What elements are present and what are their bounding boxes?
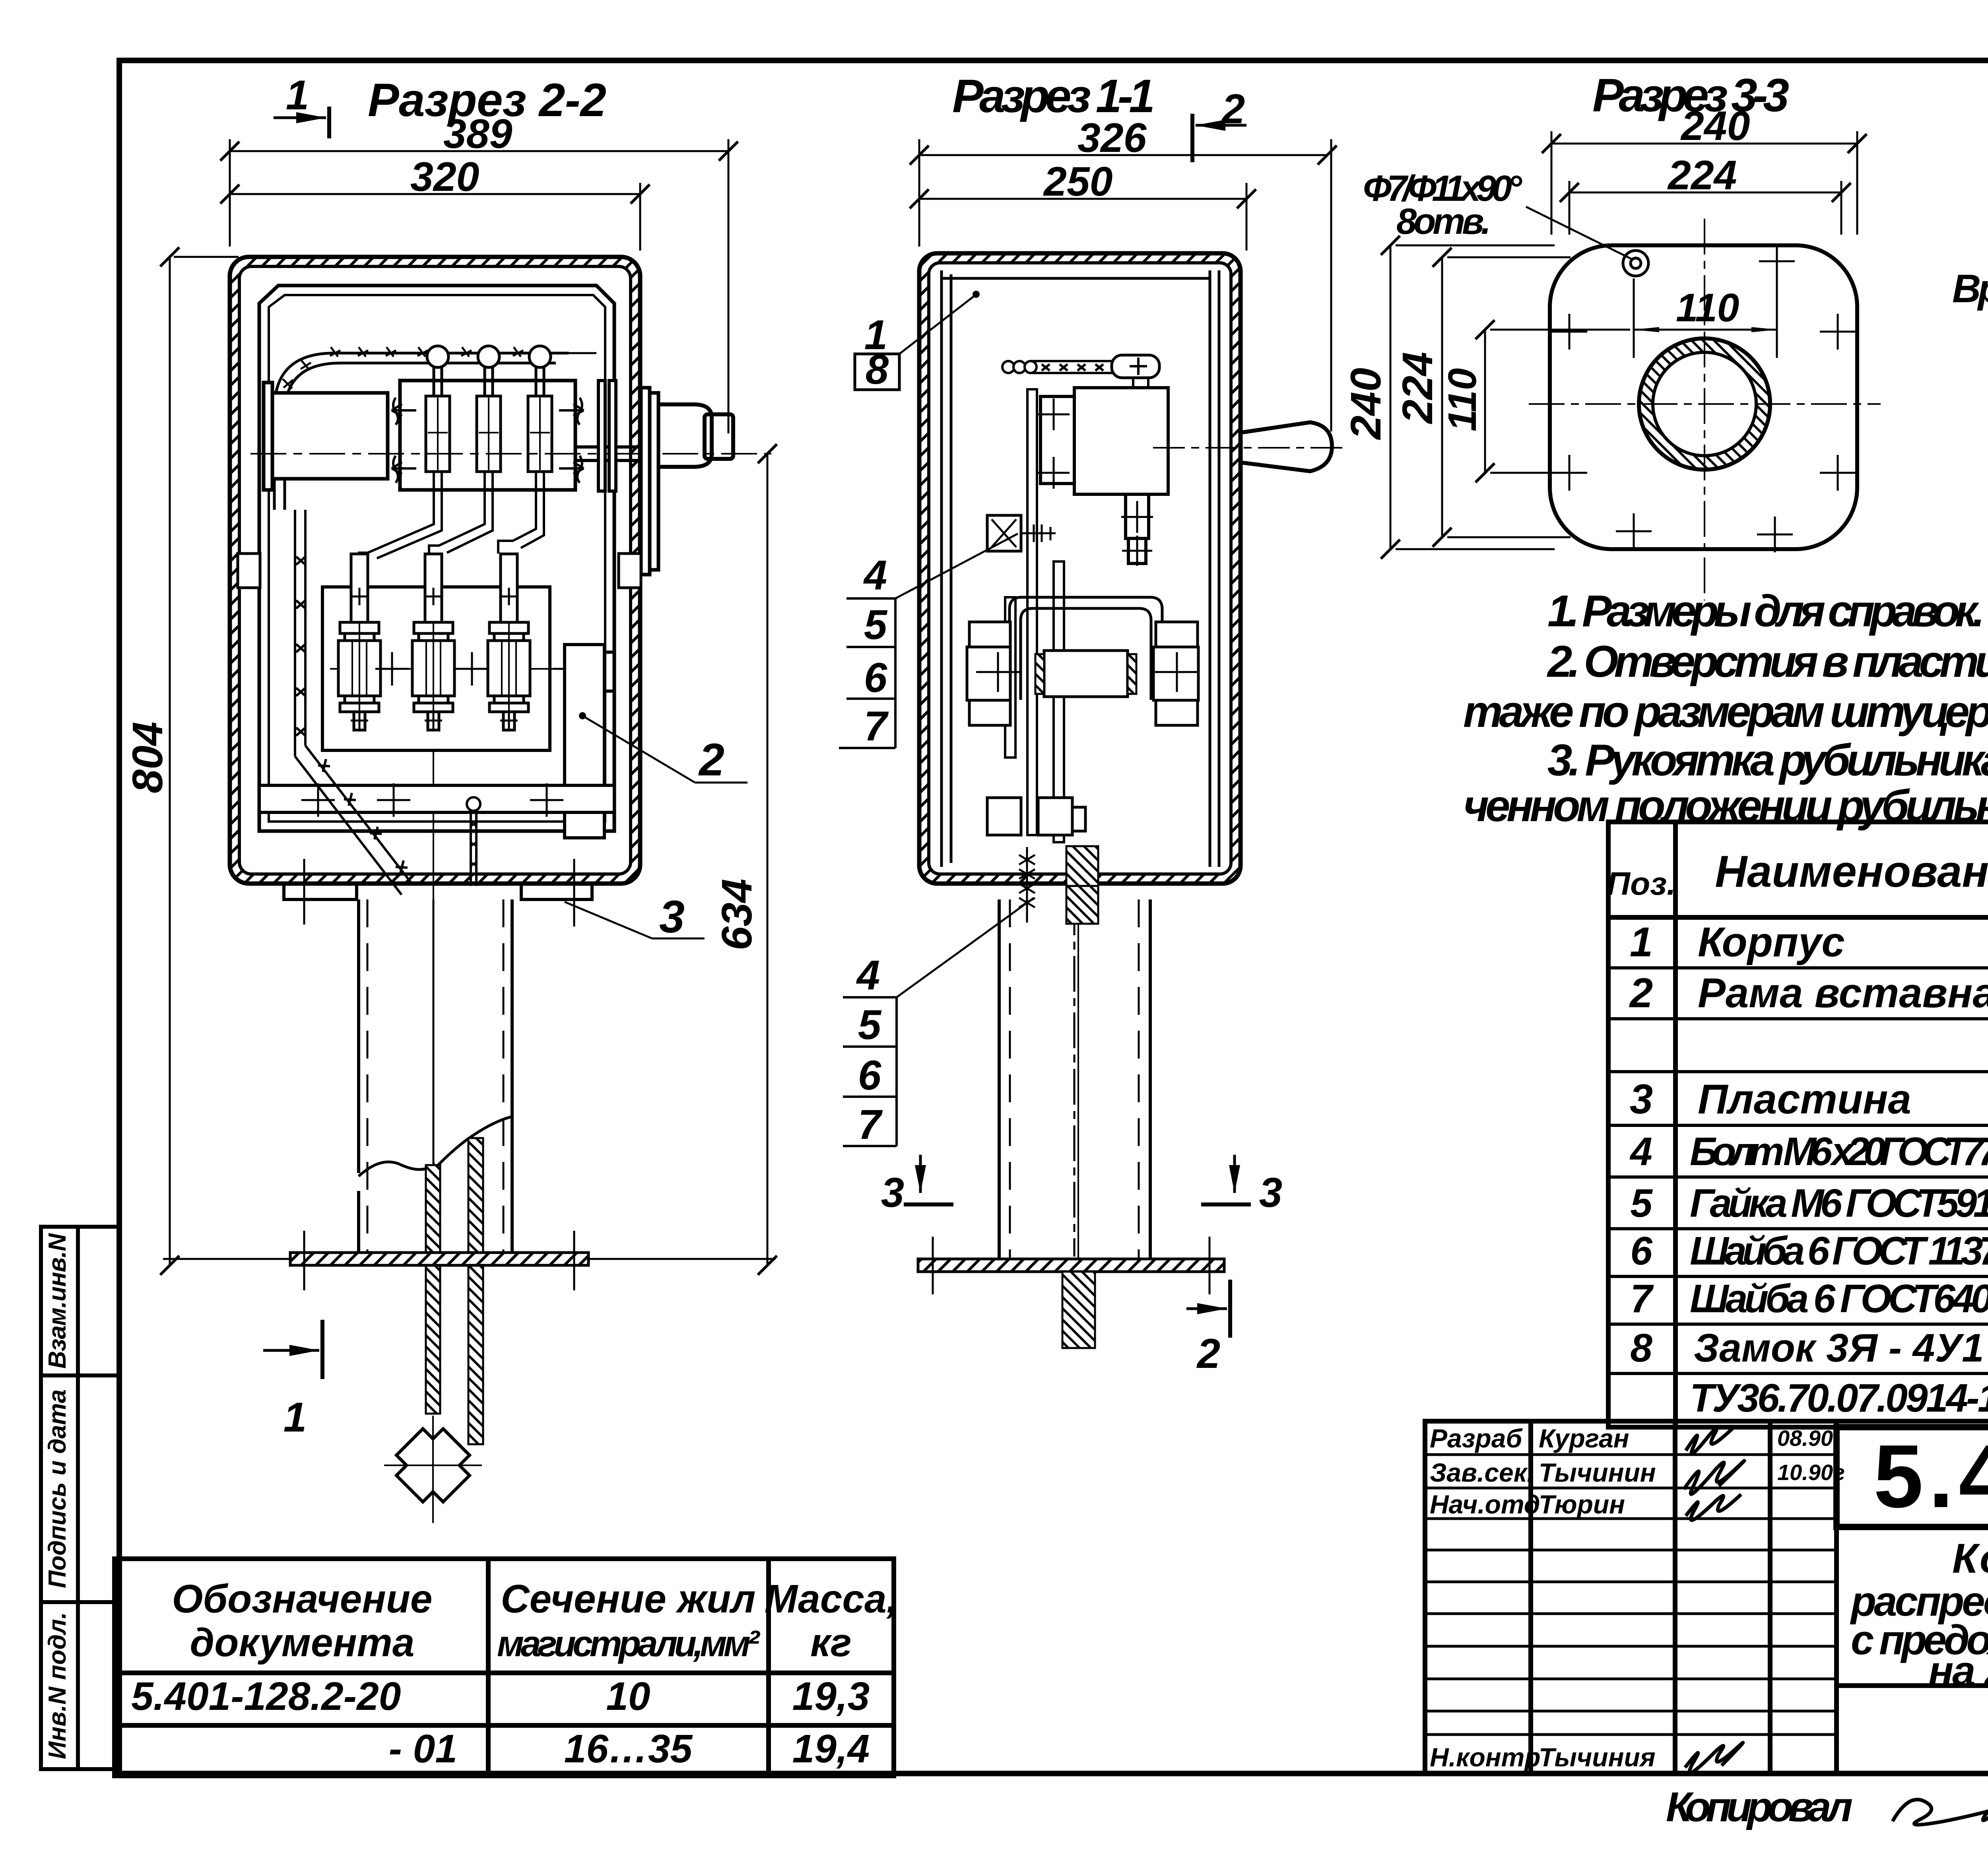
svg-text:Нач.отд: Нач.отд: [1430, 1490, 1540, 1519]
view2 flange: [918, 1259, 1224, 1272]
view1 handle boss: [658, 404, 712, 467]
svg-text:7: 7: [864, 703, 889, 750]
view3 dim 110 left: [1440, 330, 1630, 473]
view1 shaft outer plate: [641, 388, 658, 575]
svg-text:Подпись и дата: Подпись и дата: [44, 1389, 71, 1588]
view2 bolt box with X: [987, 515, 1056, 551]
svg-text:Тычинин: Тычинин: [1539, 1458, 1656, 1487]
svg-text:634: 634: [712, 879, 761, 950]
svg-text:3: 3: [1259, 1169, 1282, 1216]
svg-text:3. Рукоятка рубильника снимает: 3. Рукоятка рубильника снимается только …: [1547, 735, 1988, 785]
view1 cable lugs: [427, 346, 551, 367]
svg-text:Сечение жил: Сечение жил: [501, 1577, 755, 1621]
view1 plus marks mid: [375, 652, 586, 686]
view2 dim 326: [919, 115, 1331, 431]
svg-text:110: 110: [1676, 286, 1739, 330]
svg-text:19,3: 19,3: [792, 1674, 870, 1719]
svg-text:Болт М6 х20ГОСТ7798-70: Болт М6 х20ГОСТ7798-70: [1690, 1129, 1988, 1174]
view1 bottom feet: [284, 884, 592, 899]
view1 wall brackets: [238, 554, 641, 588]
row 1 Корпус: [1630, 919, 1988, 965]
copier signature: [1893, 1800, 1988, 1825]
svg-text:2: 2: [1196, 1331, 1220, 1377]
svg-text:3: 3: [881, 1169, 904, 1216]
svg-text:7: 7: [1630, 1276, 1654, 1321]
signature texts: [1430, 1424, 1845, 1772]
row 10 ТУ: [1690, 1376, 1988, 1420]
svg-text:Инв.N подл.: Инв.N подл.: [44, 1612, 71, 1759]
view2 handle: [1241, 422, 1332, 471]
svg-text:2: 2: [1629, 970, 1653, 1016]
svg-text:6: 6: [1630, 1229, 1653, 1273]
view2 lower boxes: [987, 798, 1085, 835]
svg-text:1: 1: [1630, 919, 1653, 965]
view2 callout 1/8: [855, 291, 980, 393]
svg-text:Колонка: Колонка: [1952, 1535, 1988, 1582]
svg-text:Разраб: Разраб: [1430, 1424, 1523, 1453]
view1 frame right column: [565, 645, 614, 838]
view1 clip arrows in switch: [392, 398, 584, 483]
bottom-left table grid: [115, 1559, 894, 1776]
svg-text:Гайка М6 ГОСТ5915-70: Гайка М6 ГОСТ5915-70: [1690, 1181, 1988, 1226]
view1 pole: [359, 899, 512, 1253]
view1 cable x-marks: [276, 347, 523, 477]
row 5 Болт: [1629, 1129, 1988, 1174]
view1 callout 2: [579, 712, 747, 785]
svg-text:Поз.: Поз.: [1607, 866, 1676, 902]
view1 fuse 3: [488, 554, 530, 730]
svg-text:Наименование: Наименование: [1715, 847, 1988, 896]
view1 callout 3: [565, 892, 705, 942]
view2 cable in pole: [1066, 886, 1098, 924]
svg-text:5: 5: [864, 602, 888, 648]
view2 cable stub: [1066, 846, 1098, 886]
view1 anchor cross: [386, 1419, 480, 1512]
svg-text:ТУ36.70.07.0914-12-89: ТУ36.70.07.0914-12-89: [1690, 1376, 1988, 1420]
svg-text:Пластина: Пластина: [1698, 1076, 1911, 1123]
svg-text:19,4: 19,4: [792, 1727, 870, 1771]
svg-text:389: 389: [443, 111, 513, 157]
svg-text:8: 8: [866, 346, 889, 393]
svg-text:240: 240: [1342, 368, 1390, 440]
view3 hole callout: [1363, 168, 1632, 259]
view1 dim 389: [230, 111, 728, 433]
view1 rail plus marks: [301, 783, 563, 817]
svg-text:6: 6: [858, 1052, 881, 1099]
svg-text:Курган: Курган: [1539, 1424, 1629, 1453]
svg-text:4: 4: [863, 552, 887, 598]
svg-text:Шайба 6 ГОСТ 11371-78: Шайба 6 ГОСТ 11371-78: [1690, 1229, 1988, 1273]
view3 dim 224 left: [1393, 257, 1571, 537]
svg-text:224: 224: [1667, 152, 1737, 198]
view2 section mark 2 bottom: [1186, 1280, 1230, 1377]
view1 fuse 1: [338, 554, 381, 730]
svg-text:8отв.: 8отв.: [1396, 201, 1491, 242]
svg-text:Тычиния: Тычиния: [1539, 1742, 1656, 1772]
svg-text:16…35: 16…35: [564, 1727, 693, 1771]
view1 cables in pole: [426, 1138, 483, 1444]
big document number box: [1837, 1427, 1988, 1527]
view1 earthing rod: [467, 797, 480, 886]
svg-text:5.401-128.2-20: 5.401-128.2-20: [131, 1674, 401, 1719]
row 2 Рама вставная: [1629, 970, 1988, 1016]
svg-text:2. Отверстия в пластинах(поз.3: 2. Отверстия в пластинах(поз.3)выполняют…: [1547, 637, 1988, 686]
svg-text:1: 1: [286, 72, 309, 118]
view1 fuse 2: [412, 554, 454, 730]
view1 fuse panel: [322, 587, 550, 750]
view3 dim 224 top: [1569, 152, 1841, 235]
parts table grid: [1608, 822, 1988, 1427]
svg-text:Н.контр: Н.контр: [1430, 1742, 1541, 1772]
svg-text:Взам.инв.N: Взам.инв.N: [44, 1233, 71, 1369]
svg-text:7: 7: [858, 1101, 883, 1148]
svg-text:3: 3: [1630, 1076, 1653, 1123]
row 7 Шайба 11371: [1630, 1229, 1988, 1273]
svg-text:Масса,: Масса,: [765, 1577, 898, 1621]
svg-text:326: 326: [1077, 115, 1147, 161]
svg-text:1. Размеры для справок.: 1. Размеры для справок.: [1547, 586, 1985, 636]
svg-text:5: 5: [1630, 1181, 1653, 1226]
view2 lower cross ticks: [976, 652, 1199, 692]
svg-text:Зав.сек.: Зав.сек.: [1430, 1458, 1534, 1487]
svg-text:Копировал: Копировал: [1666, 1784, 1853, 1830]
dimension tick marks: [160, 134, 1867, 1275]
view1 bent jumpers to fuses: [359, 472, 544, 560]
svg-text:250: 250: [1043, 159, 1113, 205]
svg-text:10: 10: [606, 1674, 650, 1719]
svg-text:магистрали,мм²: магистрали,мм²: [497, 1624, 760, 1664]
bottom-left table header: [172, 1577, 897, 1665]
view1 bottom rail: [259, 785, 614, 812]
signature squiggles: [1684, 1428, 1744, 1773]
view1 dim 320: [230, 154, 640, 251]
view1 case body wall: [230, 257, 640, 884]
view2 dim 250: [919, 159, 1246, 251]
svg-text:320: 320: [410, 154, 480, 200]
view1 switch contacts: [426, 367, 552, 472]
view1 dim 634: [588, 454, 775, 1265]
view1 flange: [290, 1253, 588, 1265]
svg-text:Обозначение: Обозначение: [172, 1577, 432, 1621]
signature table rows: [1425, 1455, 1837, 1735]
svg-text:Вр 32 - 31В31250-32: Вр 32 - 31В31250-32: [1952, 266, 1988, 311]
product name: [1850, 1535, 1988, 1694]
view2 lower mech: [967, 622, 1198, 725]
view2 toothed link strip: [1002, 355, 1159, 388]
view3 hole crosses: [1551, 243, 1856, 552]
view3 center hole: [1529, 219, 1881, 600]
view3 plate: [1550, 245, 1857, 549]
svg-text:Рама вставная: Рама вставная: [1698, 970, 1988, 1016]
svg-text:Корпус: Корпус: [1698, 919, 1845, 965]
svg-text:6: 6: [864, 655, 887, 701]
svg-text:240: 240: [1680, 103, 1750, 149]
view1 pole break line: [359, 1117, 512, 1176]
view2 section mark 2 top: [1192, 86, 1246, 162]
svg-text:- 01: - 01: [389, 1727, 457, 1771]
svg-text:1: 1: [283, 1394, 307, 1441]
view1 diagonal cable: [295, 510, 413, 895]
view2 section marks 3-3: [881, 1155, 1282, 1216]
svg-text:804: 804: [123, 722, 171, 793]
view3 dim 240 top: [1551, 103, 1857, 235]
view2 switch mech upper: [1041, 388, 1168, 563]
view1 feet tick marks: [304, 859, 574, 927]
row 9 Замок: [1630, 1326, 1984, 1370]
svg-text:8: 8: [1630, 1326, 1652, 1370]
svg-text:4: 4: [1629, 1129, 1652, 1174]
svg-text:2: 2: [1221, 86, 1245, 132]
view3 dim 110 horizontal: [1634, 247, 1777, 358]
svg-text:документа: документа: [190, 1620, 415, 1665]
view2 spring symbol: [1019, 847, 1035, 923]
svg-text:5.407-128.2-20: 5.407-128.2-20: [1873, 1426, 1988, 1526]
svg-text:таже по размерам штуцеров гибк: таже по размерам штуцеров гибких выводов…: [1463, 687, 1988, 736]
view1 handle knob: [705, 414, 733, 459]
svg-text:2: 2: [698, 734, 724, 785]
svg-text:Тюрин: Тюрин: [1539, 1490, 1625, 1519]
view1 section mark 1 bottom: [263, 1320, 322, 1441]
svg-text:Шайба 6 ГОСТ6402-70: Шайба 6 ГОСТ6402-70: [1690, 1276, 1988, 1321]
bottom-left table rows: [131, 1674, 870, 1771]
view2 pole: [999, 899, 1150, 1259]
svg-text:224: 224: [1393, 352, 1441, 424]
view2 callout stack 4-7 upper: [839, 534, 1018, 750]
view1 fuse mid axis: [330, 668, 555, 670]
view1 section mark 1 top: [274, 72, 329, 138]
view2 tall plates: [1005, 389, 1064, 842]
title block outline: [1425, 1421, 1988, 1773]
view3 small hole: [1623, 251, 1648, 276]
view2 cable stub below flange: [1062, 1272, 1095, 1348]
view1 cable duct top: [274, 353, 596, 510]
view2 U clamp: [1010, 597, 1162, 700]
view1 centre line to rail: [433, 752, 434, 899]
view2 case body wall: [919, 253, 1241, 884]
svg-text:кг: кг: [810, 1620, 852, 1665]
row 4 Пластина: [1630, 1076, 1988, 1123]
left margin column boxes: [41, 1227, 119, 1769]
view1 shaft: [575, 447, 651, 460]
view1 inner support plates: [598, 381, 616, 491]
view1 switch block: [400, 381, 575, 490]
svg-text:08.90: 08.90: [1777, 1426, 1833, 1451]
row 8 Шайба 6402: [1630, 1276, 1988, 1321]
view1 dim 804: [123, 257, 292, 1265]
view3 dim 240 left: [1342, 245, 1555, 549]
svg-text:110: 110: [1440, 368, 1485, 431]
view2 callout stack 4-7 lower: [843, 898, 1034, 1148]
view1 inner frame: [259, 286, 614, 831]
svg-text:3: 3: [659, 892, 685, 942]
view1 shaft centerline: [250, 453, 771, 455]
view2 plus-arrow marks: [1038, 398, 1153, 566]
row 6 Гайка: [1630, 1181, 1988, 1226]
svg-text:на 2 группы: на 2 группы: [1928, 1648, 1988, 1694]
view1 left tube: [264, 383, 388, 490]
view2 door panel lines: [942, 270, 1219, 867]
svg-text:5: 5: [858, 1002, 882, 1048]
svg-text:4: 4: [856, 952, 880, 998]
svg-text:Замок 3Я - 4У1: Замок 3Я - 4У1: [1694, 1326, 1984, 1370]
